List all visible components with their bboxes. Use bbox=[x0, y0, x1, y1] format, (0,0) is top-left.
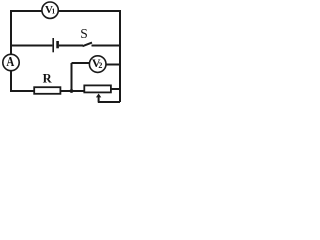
svg-text:1: 1 bbox=[52, 8, 56, 16]
svg-text:A: A bbox=[6, 54, 14, 70]
svg-text:2: 2 bbox=[98, 61, 102, 70]
svg-text:R: R bbox=[43, 72, 53, 86]
svg-text:S: S bbox=[80, 26, 88, 41]
